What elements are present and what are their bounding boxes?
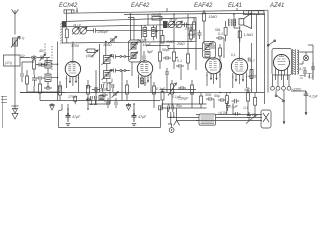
mid cluster resistor Ra [159,46,162,69]
small coil rect x99 [99,96,104,100]
antenna coil L1 (adjustable) [11,37,20,48]
svg-text:170Ω: 170Ω [68,95,77,99]
wire tuner internal [66,13,68,43]
svg-text:0,1: 0,1 [177,59,182,63]
lamp assembly box right [244,11,265,15]
junction dot mid [176,57,178,59]
heater taps marks [300,74,312,79]
wire osc top to right [119,56,131,58]
mid row resistor x40 [39,80,42,101]
caps on left verticals [86,85,91,101]
wire speaker secondary drops [252,14,257,93]
padder resistor horizontal [85,49,98,53]
IF transformer 2 shield box [203,42,216,59]
wire terminal drops [273,75,290,86]
resistor bottom right [254,93,257,118]
svg-text:1700: 1700 [71,44,79,48]
mid cluster capacitor Cc [165,68,169,79]
svg-text:↓w ↓o: ↓w ↓o [169,18,178,22]
wire osc pack left rail [99,50,101,85]
tube ECH42 grids [68,61,76,73]
resistor speaker secondary [250,70,253,79]
svg-text:4,7: 4,7 [250,59,255,63]
wire top supply rail 1 [67,10,269,13]
electrolytic 47uF no1 dot [67,113,69,115]
left input cluster: resistor R1 [33,55,36,75]
svg-text:2MΩ: 2MΩ [176,42,185,46]
chassis marks far left [1,97,7,103]
ground bars under osc pack [103,79,113,85]
junction dots left rail [57,63,59,93]
tube AZ41 internals [277,55,285,65]
svg-text:240pF: 240pF [136,39,148,43]
svg-text:47μF: 47μF [72,115,81,119]
wire IFT1 secondary return [131,62,133,76]
padder trimmer arrow [92,50,99,57]
tube ECH42 envelope [65,61,80,76]
svg-text:↓g ↓o: ↓g ↓o [73,23,81,27]
input switch contacts [31,57,33,59]
wire lamp leads [300,52,314,64]
mains cord arrowheads [283,112,308,124]
svg-text:0,1μF: 0,1μF [172,95,182,99]
tube EAF42 no1 pins [139,74,152,93]
wire between coils [142,25,157,40]
electrolytic on earth lead [304,94,309,96]
mains switch [268,41,275,46]
wire right frame vertical lower [264,13,266,104]
output cluster resistor 2 [247,87,250,107]
wire vertical osc [100,42,106,56]
svg-text:470Ω: 470Ω [248,75,257,79]
wire mains cords [284,91,306,121]
wire tick to ECH42 label [77,8,237,14]
wire tube1 anode to tuner [72,42,74,62]
tube EAF42 no2 pin dots [206,74,220,76]
wire osc pack down [96,64,122,93]
wire IFT1 top feed [128,14,134,40]
svg-text:(17•): (17•) [5,61,12,65]
switch contacts [267,44,269,46]
wire mid verticals [160,14,196,93]
svg-text:1,5kΩ: 1,5kΩ [244,33,254,37]
antenna terminal box [4,55,21,66]
small part on box right edge [159,106,163,110]
IFT1 coil b [130,52,138,60]
wire left cluster top [22,58,47,69]
svg-text:0,1μF: 0,1μF [156,87,166,91]
tube EAF42 no2 pins [207,72,220,89]
wire right frame vertical [267,10,269,92]
svg-text:AZ41: AZ41 [269,3,284,9]
oscillator coil La [143,28,147,37]
ground arrow no2 [126,103,131,110]
cap above IFT2 [198,30,202,39]
resistor below T1 [87,80,90,101]
svg-text:15kΩ: 15kΩ [209,15,218,19]
dashed tuning link [44,44,46,58]
power transformer secondary winding [297,50,298,74]
wire mid bus left [20,92,65,94]
wire tuner bus [98,29,163,31]
cap bottom right a [233,112,241,116]
switch lower contacts [275,95,277,97]
tube ECH42 pins [67,75,79,93]
wire osc mid to right [119,70,131,72]
svg-text:1MΩ: 1MΩ [166,40,174,44]
tube EAF42 no2 grids [209,58,217,70]
capacitor pair below T1 [92,87,100,92]
capacitor osc 1 [110,55,119,59]
resistor right of IFT2 [219,44,222,64]
ground arrow left of box [50,103,55,110]
oscillator coil L3 [102,70,113,81]
wire antenna lead [14,14,16,35]
mid cluster resistor Rb [173,46,176,69]
tube EAF42 no1 pin dots [138,77,152,79]
tube AZ41 pins [276,68,288,80]
mid cluster capacitor Ca [163,56,171,60]
detector resistor 3 [191,80,194,102]
svg-text:50μ: 50μ [214,94,220,98]
dial lamp cross [304,56,308,60]
wire speaker to rail [251,11,253,13]
tube AZ41 envelope [274,55,290,71]
wire cluster to rail [48,64,58,87]
variable capacitor C1b [80,28,87,35]
tube EAF42 no2 pin arrows [210,78,218,81]
row resistor x162 [161,90,164,106]
variable capacitor C2b arrow [176,21,183,28]
row cap x108 [107,98,109,108]
resistor in tuner [65,29,68,38]
tone cap [218,98,226,102]
variable capacitor C1a arrow [72,27,79,34]
wire antenna down lead [14,42,16,105]
tube EAF42 no1 pin arrows [141,80,149,83]
svg-text:(40p): (40p) [86,54,94,58]
bottom chassis box [59,104,161,127]
svg-text:50pF: 50pF [188,33,197,37]
wire verticals top mid [148,14,224,72]
oscillator coil Lb [152,28,156,37]
left coil box b [45,74,51,82]
mid row cap x48 [44,86,52,90]
svg-text:50pF: 50pF [162,48,171,52]
wire right area drops [154,101,248,124]
shield wall hatched block 2 [163,21,168,28]
phono jack [169,128,174,133]
antenna [12,10,19,15]
output transformer [228,19,235,26]
detector cap 2 [178,86,186,90]
svg-text:180Ω: 180Ω [151,13,160,17]
mains switch lower [276,90,284,101]
mid row component x60 [59,86,62,101]
electrolytic 47uF no1 [66,109,71,125]
svg-text:0,1: 0,1 [308,75,313,79]
resistor right of band [190,25,193,42]
left input cluster: capacitor [21,68,23,82]
volume pot with arrow [168,80,177,102]
capacitor right b [303,67,307,77]
tuning gang shield box [62,18,196,43]
left input cluster: resistor R2 [26,70,29,92]
tube EAF42 no1 envelope [137,61,152,76]
wire inner band line [62,24,196,27]
wire right edge vertical [308,45,313,80]
wire box to cluster [20,57,50,59]
capacitor osc 2 [110,69,119,73]
dense row caps upper [102,83,114,92]
loudspeaker [239,13,252,29]
shield box left edge hatching [60,23,62,44]
wire bottom right buses [160,90,262,121]
svg-text:50k: 50k [215,28,221,32]
variable capacitor C2a [168,21,174,27]
plug internals [263,113,269,122]
variable capacitor C1b arrow [80,27,87,34]
wire top supply rail 2 [124,13,265,14]
cap right of IFT2 [216,36,224,48]
cathode resistor 170 [74,96,77,104]
band switch contacts a [120,56,122,58]
junction dot on box bottom [105,41,107,43]
wire left bus to tube [27,86,60,93]
wire mid horizontals [146,46,203,49]
IFT1 coil a [130,43,138,51]
voltage selector terminals [271,86,275,90]
left coil box a [45,61,51,69]
resistor in band lower left [161,30,164,43]
phono jack pin [171,129,172,130]
tube EAF42 no2 envelope [206,58,222,74]
rectifier output box [199,114,216,125]
left input cluster: capacitor C4 [32,75,37,86]
rectifier box internals [201,116,215,124]
variable capacitor C1a [73,28,80,35]
resistor above IFT2 left [193,18,196,38]
tube EL41 envelope [231,58,247,74]
ground arrow center2 [174,108,180,125]
oscillator coil L2 [102,55,113,66]
variable capacitor C2a arrow [168,21,175,28]
capacitor beside IFT2 [212,42,214,50]
mid row trimmer x115 [112,92,119,98]
mid cluster resistor Rc [187,47,190,70]
band switch contacts b [120,70,122,72]
tube ECH42 pin arrows [69,81,77,84]
twin caps left bottom [168,104,174,113]
tube ECH42 pin dots [66,77,79,79]
power transformer core [293,49,296,75]
IFT2 coil b [205,52,210,58]
electrolytic 47uF no2 [132,109,137,125]
capacitor beside IFT1 [143,51,145,63]
svg-text:0,1: 0,1 [218,32,223,36]
output cluster resistor [225,93,228,109]
variable capacitor C2b [176,21,182,27]
svg-text:1kΩ: 1kΩ [244,88,251,92]
resistor 15k on rail [203,11,206,42]
wire far-left chassis edge [2,96,4,128]
resistor 180ohm horizontal [152,17,162,21]
svg-text:EAF42: EAF42 [194,3,213,9]
mid cluster capacitor Cb [176,64,184,68]
detector cluster resistor 2 [153,82,156,101]
svg-text:9pF: 9pF [147,50,154,54]
svg-text:0,1μF: 0,1μF [229,105,239,109]
wire drops from tubes to bus [68,93,134,110]
small part below T2 [141,78,144,84]
left cap b [36,76,45,80]
svg-text:30Ω: 30Ω [205,93,212,97]
small cap left of T1 pins [59,81,61,93]
svg-text:1k0: 1k0 [141,82,146,86]
dial lamp assembly box on rail [64,10,74,13]
tube EAF42 no1 grids [140,61,148,73]
tube EL41 grids [235,58,244,71]
input trimmer cap [40,54,46,61]
IFT2 coil a [204,43,212,51]
svg-text:0,1: 0,1 [244,106,249,110]
svg-text:47μF: 47μF [138,115,147,119]
left cluster small cap [39,63,47,67]
svg-text:0,1: 0,1 [231,53,236,57]
svg-text:50pF: 50pF [100,88,109,92]
electrolytic 47uF no2 dot [133,113,135,115]
svg-text:EL41: EL41 [228,3,242,9]
wire long bus lower [40,100,160,102]
svg-text:(L•): (L•) [19,36,24,40]
tube EL41 pins [233,73,247,89]
ground (antenna earth) [12,104,19,119]
twin caps x91-95 [90,96,97,105]
svg-text:100Ω: 100Ω [103,43,112,47]
wire long bus mid [20,92,265,94]
electrolytic dot [305,91,307,93]
resistor 1.5k [238,26,241,42]
svg-text:EAF42: EAF42 [131,3,150,9]
svg-text:ECh42: ECh42 [59,3,78,9]
tube EL41 pin arrows [235,79,244,82]
power unit box [272,49,292,76]
row cap x116 [115,98,117,108]
heater cap [206,97,214,108]
shield wall hatched block [62,22,66,28]
capacitor after osc gang [182,23,189,28]
wire left vertical rail [57,42,59,101]
cap bottom right b [247,112,251,120]
dial lamp [303,55,308,60]
mains plug box [261,110,271,128]
wire box leads [196,115,262,121]
capacitor 60pF [87,28,99,33]
svg-text:18pF: 18pF [143,43,152,47]
svg-text:50μ: 50μ [176,104,182,108]
mid row resistor x127 [126,80,129,101]
dashed tuning link 2 [51,46,53,70]
svg-text:45≈: 45≈ [39,49,45,53]
svg-text:4,7μF: 4,7μF [309,95,319,99]
selector jumper diagonal [246,115,257,124]
mid row cap x104 [100,93,108,97]
IF transformer 1 shield box [129,40,142,62]
capacitor right a [311,62,315,75]
trimmer capacitor in band [109,37,117,44]
cap at T4 right [248,58,250,62]
output cluster cap [232,99,240,115]
heater wiring resistor [200,93,203,109]
tube EL41 pin dots [232,76,247,78]
cap x227 vertical [226,101,230,111]
wire bus lower right [160,104,207,108]
left cap a [36,63,45,67]
wire phono leads [168,124,172,128]
wire EL41 anode up [234,14,240,58]
resistor EL41 grid stopper [224,21,227,41]
